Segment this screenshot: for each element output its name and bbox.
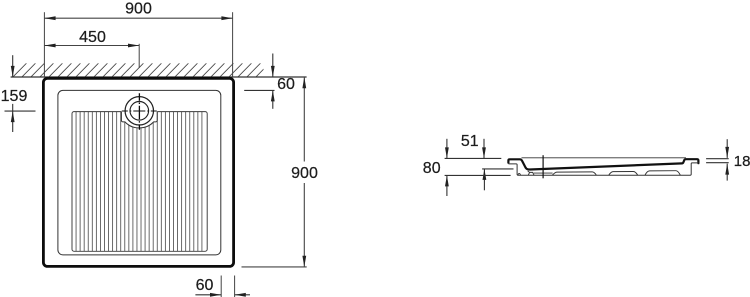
dim 900 right: dimension line lower part [303,183,305,267]
wall hatch [13,63,270,77]
dim 60 bottom: left arrow [195,294,221,296]
svg-text:900: 900 [125,1,152,18]
svg-text:900: 900 [291,165,318,182]
dim 51: lower arrow [483,169,485,190]
svg-text:18: 18 [734,153,750,170]
section ledge line right of boss [534,172,553,174]
section underside outline (thin) [509,163,699,175]
section drain boss [528,172,534,175]
tray outer edge (top view) [43,78,233,266]
dim 450: extension line at drain center [138,44,140,68]
wall line [11,76,307,78]
dim 18: lower arrow [726,164,728,181]
dim 159: lower arrow [12,111,14,132]
section drain centerline [542,155,544,178]
drain outer circle [125,97,153,125]
dim 900 right: top arrowhead [302,77,306,88]
dim 450: right arrowhead [128,44,139,48]
section bottom recess C [609,172,638,176]
svg-text:80: 80 [423,160,441,177]
tray rim inner edge [58,90,221,255]
section bottom recess D [645,171,680,175]
section far rim top edge [522,157,687,159]
section foot pad fillet near drain [518,173,521,175]
dim 60 top-right: lower arrow [272,90,274,108]
dim 159: reference line at drain axis [5,110,36,112]
drain cutout collar [121,111,157,128]
svg-text:60: 60 [277,76,295,93]
svg-text:60: 60 [196,277,214,294]
dim 900 right: bottom reference line [242,266,307,268]
dim 900 top: right arrowhead [221,16,232,20]
dim 80: bottom reference line [445,174,511,176]
dim 159: upper arrow [12,55,14,77]
svg-text:51: 51 [461,133,479,150]
dim 450: dimension line [44,45,139,47]
floor rib field [72,112,207,252]
dim 900 top: extension line right [232,12,234,77]
dim 60 top-right: reference line [244,89,274,91]
section sump diagonal [528,171,530,173]
dim 80: lower arrow [446,175,448,196]
dim 60 bottom: extension line right [234,276,236,297]
dim 60 bottom: right arrow [235,294,250,296]
dim 18: upper arrow [726,139,728,158]
dim 51: upper arrow [483,139,485,159]
dim 51: bottom reference line [482,168,513,170]
svg-text:450: 450 [79,29,106,46]
dim 18: reference lines [706,158,729,160]
dim 900 top: dimension line [44,17,232,19]
dim 60 bottom: extension line left [220,276,222,297]
dim 60 top-right: upper arrow [272,54,274,77]
dim 900 right: dimension line upper part [303,77,305,162]
dim 900 top: left arrowhead [44,16,55,20]
section profile top surface (thick) [508,159,698,169]
dim 80: upper arrow [446,139,448,159]
dim 900 top: extension line left [43,12,45,77]
dim 159: line segment below label [12,104,14,111]
svg-text:159: 159 [1,88,28,105]
drain inner circle [130,102,149,121]
section bottom recess B [552,172,596,175]
dim 450: left arrowhead [44,44,55,48]
drain centerline vertical [138,93,140,130]
dim 900 right: bottom arrowhead [302,256,306,267]
drain centerline horizontal [122,110,158,112]
dim 51/80 shared top reference line [445,157,502,159]
